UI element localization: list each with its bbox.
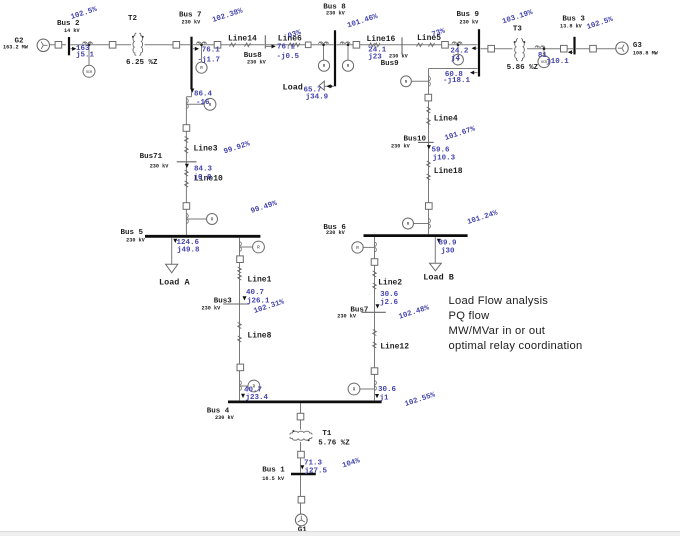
flow arrow below Bus10 [427, 145, 431, 149]
disconnect marks Bus 2 right [83, 42, 93, 44]
node Bus8 (230 kV) [264, 35, 266, 48]
svg-text:T1: T1 [322, 430, 332, 438]
wire relay stub Line8 bottom [240, 385, 249, 387]
svg-text:5.86 %Z: 5.86 %Z [507, 64, 539, 72]
svg-text:T3: T3 [513, 26, 523, 34]
svg-text:16.5 kV: 16.5 kV [262, 476, 285, 482]
svg-text:Line12: Line12 [380, 343, 409, 352]
relay R Bus 8 left [318, 60, 329, 71]
load Load B triangle [430, 263, 442, 271]
relay R Line2 [352, 242, 363, 253]
breaker square Line1 [237, 256, 244, 263]
relay R Line18 [403, 218, 414, 229]
line Line6 conductor marks [288, 43, 294, 47]
line Line18 conductor marks [427, 161, 431, 167]
svg-text:76.1: 76.1 [202, 47, 221, 55]
svg-text:84.3: 84.3 [194, 165, 213, 173]
svg-text:86.4: 86.4 [194, 90, 213, 98]
line Line10 conductor marks [185, 170, 189, 176]
wire Bus8 node to Bus 8 bar (Line6) [266, 44, 334, 46]
breaker square Line10 [183, 203, 190, 210]
line Line4 conductor marks [427, 107, 431, 113]
svg-text:163.2 MW: 163.2 MW [3, 45, 29, 51]
disconnect marks Line18 bottom [429, 219, 431, 229]
svg-text:Load A: Load A [159, 277, 191, 287]
svg-text:j49.8: j49.8 [177, 246, 200, 254]
breaker square Line14 left [214, 42, 221, 49]
wire relay stub Line3 top [186, 103, 204, 105]
svg-text:13.8 kV: 13.8 kV [560, 24, 583, 30]
disconnect marks Bus 7 right [197, 42, 207, 44]
wire relay stub Bus 8 left [323, 45, 325, 60]
annotation text block [449, 294, 583, 354]
relay R Bus 8 right [342, 60, 353, 71]
wire Bus 8 load tap [324, 85, 334, 87]
flow arrow out of Bus 2 [72, 47, 76, 51]
svg-text:230 kV: 230 kV [391, 143, 411, 149]
svg-text:99.49%: 99.49% [250, 200, 279, 216]
svg-text:230 kV: 230 kV [182, 20, 202, 26]
svg-text:71.3: 71.3 [304, 459, 323, 467]
breaker square Line12 [371, 368, 378, 375]
svg-text:230 kV: 230 kV [337, 314, 357, 320]
disconnect marks Bus 8 left [319, 42, 329, 44]
svg-text:230 kV: 230 kV [389, 53, 409, 59]
svg-text:Bus 3: Bus 3 [562, 15, 585, 23]
transformer T3 [515, 39, 518, 61]
wire Bus 2 to T2 [71, 44, 132, 46]
disconnect marks Line10 bottom [186, 214, 188, 224]
breaker square Line6 right [305, 42, 311, 48]
wire G2 to Bus 2 [50, 44, 67, 46]
flow arrow j23.4 [241, 394, 245, 398]
generator G2 [37, 39, 49, 51]
svg-text:30.6: 30.6 [378, 386, 397, 394]
svg-text:Line1: Line1 [247, 275, 271, 284]
svg-text:Bus 9: Bus 9 [457, 11, 480, 19]
svg-text:G3: G3 [633, 42, 643, 50]
flow arrow right of Bus8 node [272, 44, 276, 48]
wire Line1/Line8 vertical branch Bus 5 to Bus 4 [239, 238, 241, 401]
svg-text:73%: 73% [431, 27, 447, 39]
svg-text:Bus 2: Bus 2 [57, 20, 80, 28]
disconnect marks Line1 top [240, 242, 242, 252]
breaker square Bus 4 to T1 [297, 413, 304, 420]
bus Bus 4 bar [228, 400, 382, 403]
wire Bus 9 to T3 [481, 48, 513, 50]
wire Bus 7 to Bus8 node (Line14) [193, 44, 265, 46]
load triangle Bus 8 (points left) [319, 81, 324, 90]
svg-text:99.92%: 99.92% [223, 140, 252, 156]
breaker square Bus 3 left [561, 45, 568, 52]
wire Bus 4 to T1 [300, 403, 302, 429]
breaker square G2 [55, 42, 62, 49]
wire relay stub Bus 8 right [347, 45, 349, 60]
breaker square Bus 9 right [488, 45, 495, 52]
breaker square Line8 [237, 364, 244, 371]
svg-text:-j0.5: -j0.5 [277, 53, 300, 61]
relay R Line10 [207, 214, 218, 225]
relay R Line1 [253, 241, 265, 253]
junction dot Bus 9 stub [457, 44, 460, 47]
relay OCR Bus 2 [83, 65, 95, 77]
svg-text:-j1.7: -j1.7 [198, 57, 221, 65]
svg-text:Bus 1: Bus 1 [262, 466, 285, 474]
flow arrow right of Bus 7 [195, 47, 199, 51]
wire Bus 9 lower tap to Line4 branch [429, 68, 478, 70]
line Line3 conductor marks [185, 137, 189, 143]
flow arrow below Bus71 [185, 164, 189, 168]
svg-text:102.55%: 102.55% [404, 391, 437, 408]
wire T3 to Bus 3 [527, 48, 573, 50]
breaker square Bus 1 to G1 [298, 496, 305, 503]
svg-text:102.5%: 102.5% [586, 16, 615, 32]
wire relay stub T3 circle [543, 49, 545, 56]
svg-text:Line4: Line4 [434, 114, 458, 123]
line Line1 conductor marks [238, 267, 242, 273]
bus Bus 8 bar [334, 30, 336, 86]
svg-text:j4: j4 [451, 55, 461, 63]
wire Load A tap [171, 238, 173, 265]
disconnect marks T3 right [535, 46, 545, 48]
wire relay stub Line12 bottom [360, 388, 375, 390]
relay R Line12 [348, 383, 360, 395]
svg-text:230 kV: 230 kV [326, 11, 346, 17]
svg-text:-16: -16 [196, 99, 210, 107]
svg-text:j27.5: j27.5 [305, 467, 328, 475]
wire relay stub Line4 top [412, 80, 429, 82]
svg-text:j5.1: j5.1 [76, 52, 95, 60]
breaker square Bus 8 right [353, 42, 360, 49]
svg-text:59.6: 59.6 [432, 147, 451, 155]
node Bus3 (230 kV) [223, 303, 249, 305]
svg-text:101.24%: 101.24% [466, 209, 499, 226]
wire relay stub Line1 top [240, 246, 254, 248]
breaker square Bus 3 right [590, 45, 597, 52]
line Line5 conductor marks [417, 43, 423, 47]
transformer T2 [133, 33, 136, 55]
disconnect marks Line3 top [186, 99, 188, 109]
line Line8 conductor marks [238, 323, 242, 329]
wire Load B tap [434, 237, 436, 263]
svg-text:104%: 104% [341, 457, 361, 470]
svg-text:j30: j30 [441, 248, 455, 256]
svg-text:j0.8: j0.8 [194, 174, 213, 182]
disconnect marks Line12 bottom [375, 381, 377, 391]
relay R Bus 7 [196, 62, 207, 73]
bus Bus 7 bar [190, 37, 192, 89]
svg-text:Line8: Line8 [247, 331, 271, 340]
svg-text:102.5%: 102.5% [70, 6, 99, 22]
svg-text:Line3: Line3 [194, 144, 218, 153]
disconnect marks Line2 top [375, 242, 377, 252]
disconnect marks Line4 top [429, 76, 431, 86]
generator G3 [616, 42, 628, 54]
svg-text:j10.1: j10.1 [546, 58, 569, 66]
wire relay stub Bus 7 [201, 45, 203, 62]
svg-text:Line2: Line2 [378, 279, 402, 288]
svg-text:103.19%: 103.19% [501, 9, 534, 26]
wire relay stub Bus 9 left [457, 45, 459, 54]
breaker square Line3 [183, 125, 190, 132]
bus Bus 1 bar [291, 473, 316, 475]
svg-text:89.9: 89.9 [439, 239, 458, 247]
bus Bus 9 bar [478, 29, 480, 76]
flow arrow Load A tap [173, 239, 177, 243]
wire Bus 7 step to Line3 branch [191, 87, 193, 97]
breaker square Line18 [426, 203, 433, 210]
svg-text:Line18: Line18 [434, 167, 463, 176]
line Line16 conductor marks [369, 43, 375, 47]
node Bus9 (230 kV) [401, 37, 403, 54]
svg-text:Bus71: Bus71 [140, 153, 163, 161]
transformer T1 [290, 431, 312, 434]
svg-text:Bus9: Bus9 [381, 60, 400, 68]
svg-text:6.25 %Z: 6.25 %Z [126, 59, 158, 67]
flow arrow into Bus 9 left [473, 47, 478, 49]
svg-text:230 kV: 230 kV [460, 19, 480, 25]
relay R Line3 [204, 98, 216, 110]
svg-text:5.76 %Z: 5.76 %Z [318, 440, 350, 448]
svg-text:230 kV: 230 kV [126, 237, 146, 243]
svg-text:30.6: 30.6 [380, 291, 399, 299]
svg-text:102.48%: 102.48% [398, 304, 431, 321]
node Bus7 lower (230 kV) [362, 311, 386, 313]
svg-text:230 kV: 230 kV [215, 415, 235, 421]
svg-text:-j18.1: -j18.1 [443, 77, 471, 85]
junction dot Bus 7 stub [200, 44, 203, 47]
svg-text:Line14: Line14 [228, 35, 257, 44]
flow arrow into Bus 3 [568, 50, 572, 54]
wire relay stub Bus 2 [88, 45, 90, 66]
svg-text:Bus 7: Bus 7 [179, 12, 202, 20]
wire relay stub Line18 bottom [414, 223, 429, 225]
breaker square Line4 [425, 94, 432, 101]
bus Bus 5 bar [145, 235, 260, 238]
bus Bus 2 bar [68, 37, 70, 55]
svg-text:40.7: 40.7 [246, 289, 264, 297]
disconnect marks Bus 8 right [340, 42, 350, 44]
load Load A triangle [166, 264, 178, 273]
svg-text:102.38%: 102.38% [211, 7, 244, 24]
relay R Line8 [248, 380, 260, 392]
wire T2 to Bus 7 [145, 44, 191, 46]
bus Bus 6 bar [364, 234, 468, 237]
relay R Line4 [401, 76, 412, 87]
disconnect marks Line8 bottom [240, 381, 242, 391]
svg-text:Bus3: Bus3 [214, 298, 233, 306]
line Line12 conductor marks [373, 330, 377, 336]
svg-text:101.46%: 101.46% [346, 13, 379, 30]
junction dot Bus 2 stub [88, 44, 91, 47]
svg-text:Load: Load [283, 83, 303, 93]
bottom gray strip [0, 531, 680, 536]
relay OCR T3 [538, 56, 550, 68]
disconnect marks Bus 9 left [452, 42, 462, 44]
line Line2 conductor marks [373, 271, 377, 277]
svg-text:j2.6: j2.6 [380, 299, 399, 307]
svg-text:108.8 MW: 108.8 MW [633, 50, 659, 56]
wire Bus 1 to G1 [300, 475, 302, 514]
bus Bus 3 bar [573, 37, 575, 55]
node Bus10 (230 kV) [418, 141, 434, 143]
wire Line2/Line12 vertical branch Bus 6 to Bus 4 [374, 237, 376, 400]
junction dot T3 stub [543, 47, 546, 50]
breaker square Line2 [371, 259, 378, 266]
line Line14 conductor marks [230, 43, 236, 47]
svg-text:j23.4: j23.4 [246, 394, 269, 402]
breaker square T2-Bus7 [173, 42, 180, 49]
svg-text:Line16: Line16 [367, 35, 396, 44]
wire Line3/Line10 vertical branch to Bus 5 [185, 97, 187, 235]
svg-text:230 kV: 230 kV [326, 230, 346, 236]
svg-text:76.1: 76.1 [277, 44, 296, 52]
flow arrow j26.1 [243, 296, 247, 300]
relay R Bus 9 left [453, 54, 464, 65]
breaker square Line5 right [442, 42, 449, 49]
flow arrow Load B tap [437, 239, 441, 243]
wire Line4/Line18 vertical branch to Bus 6 [428, 69, 430, 235]
svg-text:Load B: Load B [423, 272, 454, 282]
svg-text:j23: j23 [368, 53, 382, 61]
junction dot Bus 8 right stub [347, 44, 350, 47]
wire T1 to Bus 1 [300, 442, 302, 473]
svg-text:101.67%: 101.67% [444, 125, 477, 142]
svg-text:OCR: OCR [86, 71, 92, 75]
wire relay stub Line2 top [363, 246, 374, 248]
flow arrow Bus 8 load [327, 84, 331, 88]
flow arrow Bus 9 lower tap [472, 72, 478, 74]
svg-text:j10.3: j10.3 [433, 155, 456, 163]
wire Bus 3 to G3 [576, 48, 616, 50]
svg-text:230 kV: 230 kV [150, 163, 170, 169]
wire Bus 8 bar to Bus 9 bar (Line16, Line5) [337, 44, 478, 46]
flow arrow j27.5 [300, 465, 304, 469]
svg-text:j34.9: j34.9 [306, 94, 329, 102]
breaker square T1 to Bus 1 [298, 451, 305, 458]
node Bus71 (230 kV) [177, 161, 197, 163]
svg-text:Bus 5: Bus 5 [121, 229, 144, 237]
wire relay stub Line10 bottom [186, 218, 206, 220]
svg-text:j1: j1 [380, 394, 390, 402]
flow arrow below Bus 7 [190, 89, 194, 93]
svg-text:T2: T2 [128, 15, 138, 23]
svg-text:230 kV: 230 kV [202, 305, 222, 311]
svg-text:14 kV: 14 kV [64, 28, 80, 34]
breaker square Bus2-T2 [109, 42, 116, 49]
svg-text:230 kV: 230 kV [247, 59, 267, 65]
junction dot Bus 8 left stub [322, 44, 325, 47]
generator G1 [295, 514, 307, 526]
flow arrow j2.6 [376, 304, 380, 308]
